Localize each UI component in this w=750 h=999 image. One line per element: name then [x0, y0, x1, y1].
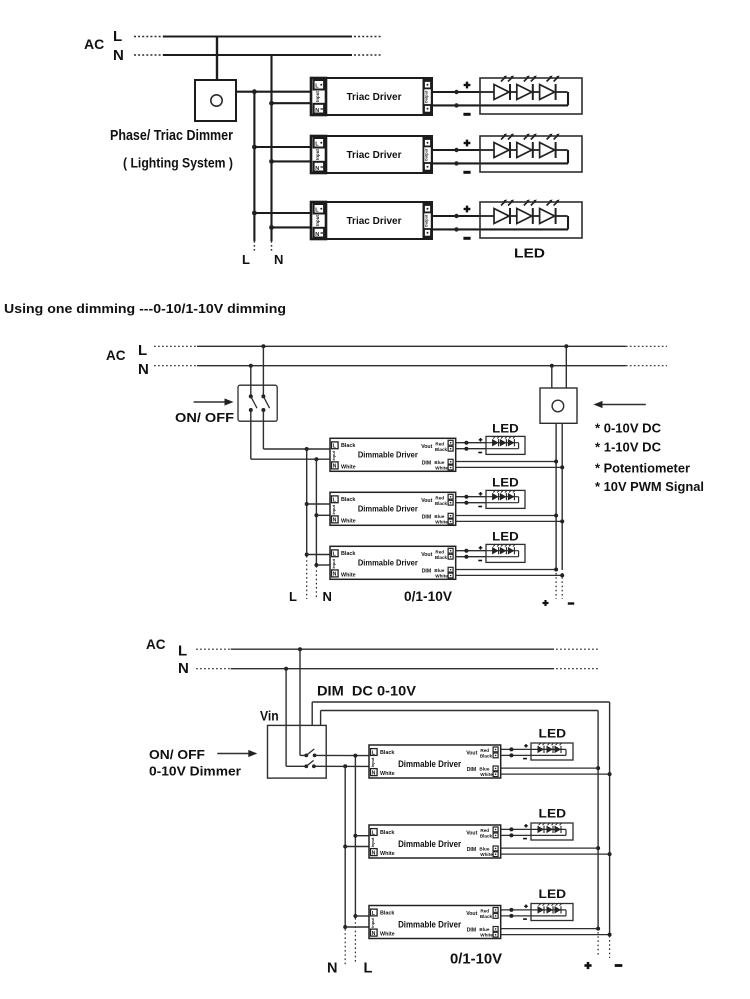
svg-text:Dimmable Driver: Dimmable Driver: [398, 920, 461, 930]
svg-text:* 1-10V DC: * 1-10V DC: [595, 440, 661, 454]
svg-text:N: N: [333, 572, 337, 578]
svg-text:Red: Red: [480, 828, 489, 833]
svg-text:AC: AC: [146, 637, 166, 652]
svg-text:N: N: [315, 108, 319, 114]
svg-text:* 0-10V DC: * 0-10V DC: [595, 422, 661, 436]
svg-text:( Lighting System ): ( Lighting System ): [123, 155, 233, 171]
svg-text:Blue: Blue: [434, 460, 444, 465]
svg-text:Black: Black: [435, 447, 448, 452]
svg-text:N: N: [327, 961, 337, 977]
svg-text:N: N: [323, 589, 332, 604]
svg-text:Phase/ Triac Dimmer: Phase/ Triac Dimmer: [110, 128, 233, 144]
svg-text:AC: AC: [106, 348, 126, 363]
svg-text:Red: Red: [480, 909, 489, 914]
svg-text:White: White: [341, 573, 356, 579]
svg-text:LED: LED: [492, 424, 519, 436]
svg-text:N: N: [372, 850, 376, 856]
svg-text:White: White: [435, 573, 448, 578]
svg-text:LED: LED: [492, 532, 519, 544]
svg-text:White: White: [480, 933, 493, 938]
svg-text:Blue: Blue: [479, 767, 489, 772]
svg-text:Black: Black: [380, 910, 394, 916]
svg-text:L: L: [372, 750, 375, 756]
svg-text:Dimmable Driver: Dimmable Driver: [398, 759, 461, 769]
svg-text:Black: Black: [480, 914, 493, 919]
svg-text:Red: Red: [435, 495, 444, 500]
svg-text:Black: Black: [341, 551, 355, 557]
svg-text:White: White: [380, 851, 395, 857]
svg-text:Input: Input: [370, 918, 375, 928]
svg-text:Black: Black: [380, 750, 394, 756]
svg-text:Triac Driver: Triac Driver: [347, 149, 402, 161]
svg-text:L: L: [289, 589, 297, 604]
svg-text:L: L: [333, 498, 336, 504]
svg-text:White: White: [341, 465, 356, 471]
svg-text:L: L: [138, 342, 147, 359]
svg-text:L: L: [333, 444, 336, 450]
svg-text:Input: Input: [331, 450, 336, 460]
svg-text:Black: Black: [435, 555, 448, 560]
svg-text:Vout: Vout: [421, 498, 432, 504]
svg-text:Blue: Blue: [479, 847, 489, 852]
svg-text:DIM DC 0-10V: DIM DC 0-10V: [317, 683, 416, 698]
svg-text:Input: Input: [370, 837, 375, 847]
svg-text:Black: Black: [341, 443, 355, 449]
svg-text:ON/ OFF: ON/ OFF: [175, 411, 234, 425]
svg-text:N: N: [113, 47, 124, 64]
svg-text:DIM: DIM: [422, 461, 432, 467]
svg-text:White: White: [435, 465, 448, 470]
svg-text:Dimmable Driver: Dimmable Driver: [358, 504, 419, 514]
svg-text:Input: Input: [315, 91, 320, 102]
svg-text:Input: Input: [331, 558, 336, 568]
svg-text:Red: Red: [435, 441, 444, 446]
svg-text:0-10V Dimmer: 0-10V Dimmer: [149, 764, 241, 778]
svg-text:Output: Output: [425, 90, 429, 103]
svg-text:Output: Output: [425, 148, 429, 161]
svg-text:N: N: [138, 361, 149, 378]
svg-text:Black: Black: [435, 501, 448, 506]
svg-text:LED: LED: [539, 807, 567, 821]
svg-text:White: White: [480, 852, 493, 857]
svg-text:Input: Input: [370, 757, 375, 767]
svg-text:N: N: [315, 232, 319, 238]
svg-text:Input: Input: [315, 215, 320, 226]
svg-text:Black: Black: [480, 834, 493, 839]
svg-text:N: N: [372, 931, 376, 937]
svg-text:Vout: Vout: [466, 751, 477, 757]
svg-text:Black: Black: [480, 754, 493, 759]
svg-text:N: N: [178, 660, 189, 677]
svg-text:White: White: [341, 519, 356, 525]
svg-text:Dimmable Driver: Dimmable Driver: [358, 450, 419, 460]
svg-text:Vout: Vout: [421, 444, 432, 450]
svg-text:0/1-10V: 0/1-10V: [404, 589, 452, 604]
svg-text:Vout: Vout: [466, 911, 477, 917]
svg-text:* Potentiometer: * Potentiometer: [595, 461, 690, 475]
svg-text:L: L: [242, 252, 250, 267]
svg-text:N: N: [274, 252, 283, 267]
svg-text:Red: Red: [480, 748, 489, 753]
svg-text:L: L: [372, 830, 375, 836]
svg-text:LED: LED: [539, 887, 567, 901]
svg-text:L: L: [113, 28, 122, 45]
svg-text:N: N: [333, 464, 337, 470]
svg-text:N: N: [372, 770, 376, 776]
svg-text:Blue: Blue: [479, 927, 489, 932]
svg-text:DIM: DIM: [422, 515, 432, 521]
svg-text:N: N: [333, 518, 337, 524]
svg-text:L: L: [333, 552, 336, 558]
svg-text:White: White: [380, 932, 395, 938]
svg-text:DIM: DIM: [467, 928, 477, 934]
svg-text:LED: LED: [539, 727, 567, 741]
svg-text:Black: Black: [341, 497, 355, 503]
svg-text:Dimmable Driver: Dimmable Driver: [398, 839, 461, 849]
svg-text:Dimmable Driver: Dimmable Driver: [358, 558, 419, 568]
svg-text:Vout: Vout: [466, 831, 477, 837]
svg-text:Triac Driver: Triac Driver: [347, 215, 402, 227]
svg-text:White: White: [480, 772, 493, 777]
svg-text:Triac Driver: Triac Driver: [347, 91, 402, 103]
svg-text:DIM: DIM: [422, 569, 432, 575]
svg-text:Red: Red: [435, 549, 444, 554]
svg-text:L: L: [364, 961, 373, 977]
svg-text:Blue: Blue: [434, 514, 444, 519]
svg-text:Vin: Vin: [260, 708, 279, 724]
svg-text:DIM: DIM: [467, 767, 477, 773]
svg-text:White: White: [380, 771, 395, 777]
svg-text:AC: AC: [84, 36, 104, 52]
svg-text:Blue: Blue: [434, 568, 444, 573]
svg-text:N: N: [315, 166, 319, 172]
svg-text:Black: Black: [380, 830, 394, 836]
svg-text:DIM: DIM: [467, 847, 477, 853]
svg-text:L: L: [178, 642, 187, 659]
svg-text:Using one dimming ---0-10/1-10: Using one dimming ---0-10/1-10V dimming: [4, 301, 286, 316]
svg-text:Input: Input: [331, 504, 336, 514]
svg-text:ON/ OFF: ON/ OFF: [149, 748, 205, 762]
svg-text:* 10V PWM Signal: * 10V PWM Signal: [595, 480, 704, 494]
svg-text:L: L: [372, 911, 375, 917]
svg-text:LED: LED: [492, 478, 519, 490]
svg-text:Input: Input: [315, 149, 320, 160]
svg-text:LED: LED: [514, 246, 545, 261]
svg-text:White: White: [435, 519, 448, 524]
svg-text:Output: Output: [425, 214, 429, 227]
svg-text:Vout: Vout: [421, 552, 432, 558]
svg-text:0/1-10V: 0/1-10V: [450, 951, 502, 968]
